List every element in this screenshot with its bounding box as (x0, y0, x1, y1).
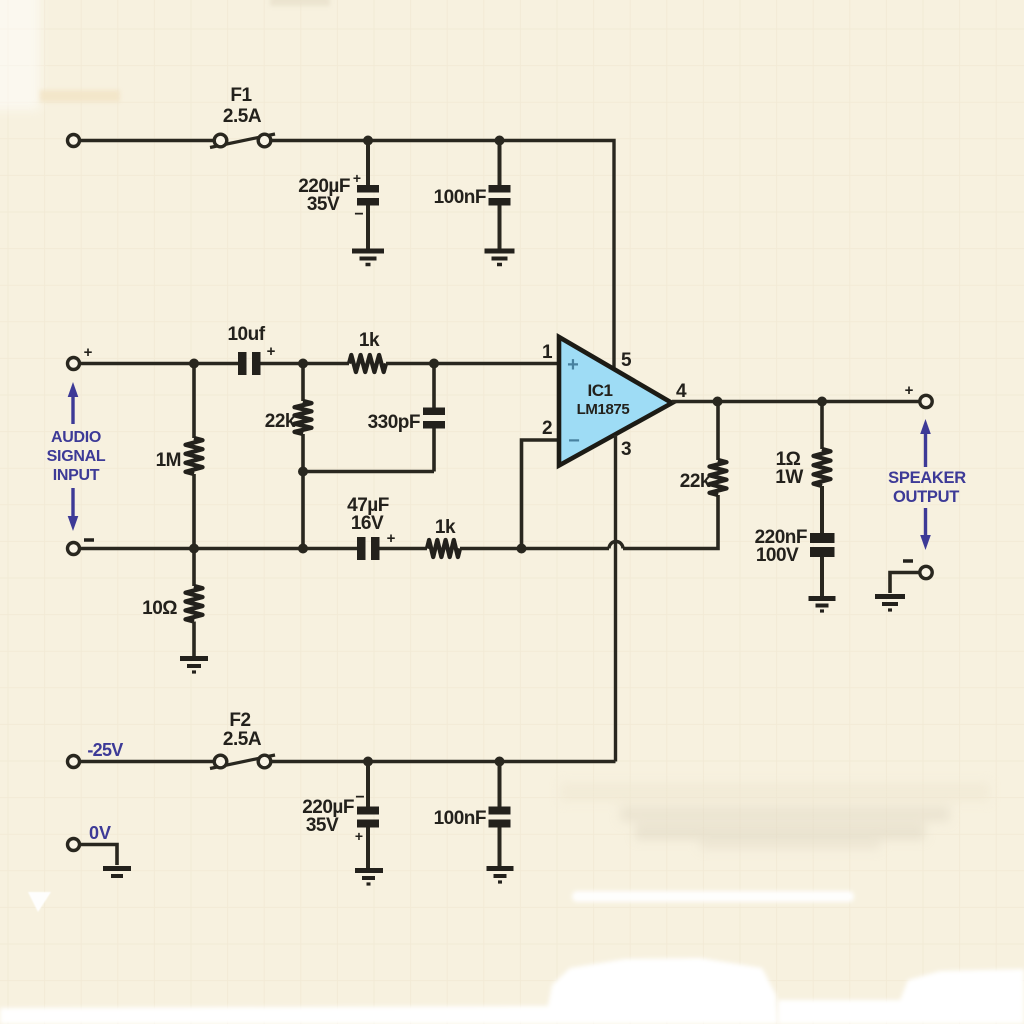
terminal -25V (68, 756, 80, 768)
ground (C7) (355, 871, 383, 885)
svg-text:SIGNAL: SIGNAL (47, 448, 106, 465)
svg-text:4: 4 (676, 381, 687, 402)
node 1M bottom (189, 544, 199, 554)
fuse F2 (210, 755, 275, 769)
resistor R6 1ohm 1W (775, 402, 830, 534)
wire hop to 22k fb corner, up through 22k (623, 495, 718, 549)
svg-text:1W: 1W (775, 467, 803, 488)
wire output rail (672, 400, 920, 403)
svg-text:−: − (568, 430, 580, 452)
svg-text:2.5A: 2.5A (223, 106, 262, 127)
terminal speaker - (920, 566, 932, 578)
svg-text:0V: 0V (89, 823, 111, 843)
wire 1k to pin1 (386, 362, 559, 365)
svg-text:10Ω: 10Ω (142, 598, 177, 619)
ground (speaker) (875, 597, 905, 611)
wire top rail right of fuse to corner, down to pin 5 (271, 141, 614, 368)
ground (C8) (487, 869, 514, 883)
svg-text:35V: 35V (307, 194, 340, 215)
node junction top rail / 100nF (495, 136, 505, 146)
svg-text:-25V: -25V (87, 740, 123, 760)
wire input+ line (80, 362, 239, 365)
resistor R1 1M (156, 364, 203, 549)
svg-text:OUTPUT: OUTPUT (893, 488, 959, 506)
svg-text:+: + (567, 354, 579, 376)
wire speaker - to ground (890, 573, 920, 594)
arrow up (speaker) (920, 419, 931, 467)
svg-text:22k: 22k (265, 411, 296, 432)
ground (10 ohm) (180, 659, 208, 673)
svg-text:INPUT: INPUT (53, 467, 100, 484)
arrow up (input) (68, 382, 79, 424)
ground (C1 top) (352, 251, 384, 265)
capacitor C7 220uF 35V (bottom) (302, 762, 379, 869)
svg-text:−: − (355, 789, 364, 806)
node junction top rail / 220uF (363, 136, 373, 146)
capacitor C1 220uF 35V (top) (298, 141, 379, 250)
capacitor C4 330pF (368, 364, 445, 472)
svg-text:2: 2 (542, 418, 552, 439)
terminal speaker + (920, 395, 932, 407)
wire 1k to pin2 node (460, 547, 609, 550)
svg-text:3: 3 (621, 439, 631, 460)
svg-text:SPEAKER: SPEAKER (888, 469, 966, 487)
svg-text:F1: F1 (230, 85, 252, 106)
resistor R3 22k (input shunt) (265, 364, 312, 472)
svg-text:10uf: 10uf (227, 324, 265, 345)
resistor R2 1k (input) (349, 355, 386, 372)
svg-text:+: + (387, 530, 396, 547)
svg-text:22k: 22k (680, 471, 711, 492)
svg-text:35V: 35V (306, 815, 339, 836)
resistor R5 22k (feedback) (680, 402, 727, 496)
wire pin2 vertical + horizontal into pin 2 (522, 440, 560, 549)
node 22k/330pF junction (298, 467, 308, 477)
wire 10uf to 1k (261, 362, 350, 365)
node feedback / pin2 (517, 544, 527, 554)
svg-text:F2: F2 (229, 710, 250, 731)
svg-text:330pF: 330pF (368, 412, 420, 433)
svg-text:100nF: 100nF (434, 187, 486, 208)
arrow down (input) (68, 488, 79, 531)
svg-text:+: + (905, 382, 914, 399)
wire 0V to ground (80, 845, 118, 866)
svg-text:+: + (353, 170, 361, 186)
capacitor C2 100nF (top) (434, 141, 511, 250)
wire top rail left of fuse (80, 139, 215, 142)
svg-text:−: − (354, 206, 363, 223)
terminal +25V (68, 135, 80, 147)
op-amp IC1 LM1875 (559, 337, 672, 466)
capacitor C5 47uF 16V (347, 495, 395, 560)
node 330pF top (429, 359, 439, 369)
svg-text:1M: 1M (156, 450, 181, 471)
terminal 0V (68, 839, 80, 851)
ground (C2 top) (485, 251, 515, 265)
wire 330pF bottom to 22k bottom (303, 472, 434, 549)
node 22k bottom vertical (298, 544, 308, 554)
capacitor C3 10uf (coupling) (227, 324, 275, 375)
ghost bleed-through band bottom right (560, 782, 990, 850)
svg-text:+: + (355, 828, 363, 844)
svg-text:100nF: 100nF (434, 808, 486, 829)
wire bottom rail left of fuse (80, 760, 215, 763)
wire pin3 down to negative rail (614, 435, 617, 762)
resistor R4 1k (feedback lower) (427, 540, 460, 557)
wire return line (80, 547, 358, 550)
fuse F1 (210, 134, 275, 148)
ground (0V) (103, 869, 131, 877)
capacitor C6 220nF 100V (755, 527, 835, 596)
svg-text:2.5A: 2.5A (223, 729, 262, 750)
resistor R7 10 ohm (142, 549, 202, 657)
node bottom rail / 220uF (363, 757, 373, 767)
svg-text:1k: 1k (359, 330, 380, 351)
svg-text:IC1: IC1 (588, 381, 613, 400)
terminal input - (68, 543, 80, 555)
svg-text:1: 1 (542, 342, 553, 363)
svg-text:1k: 1k (435, 517, 456, 538)
ground (zobel) (809, 599, 836, 612)
svg-text:+: + (267, 343, 276, 360)
svg-text:+: + (84, 344, 93, 361)
capacitor C8 100nF (bottom) (434, 762, 511, 867)
svg-text:16V: 16V (351, 513, 384, 534)
wire hop over pin3 line (609, 542, 623, 549)
svg-text:100V: 100V (756, 545, 799, 566)
arrow down (speaker) (920, 508, 931, 550)
wire bottom rail right of fuse, corner up to pin 3 (271, 760, 616, 763)
node 22k top (298, 359, 308, 369)
svg-text:LM1875: LM1875 (577, 401, 630, 418)
node bottom rail / 100nF (495, 757, 505, 767)
node input+/1M (189, 359, 199, 369)
svg-text:AUDIO: AUDIO (51, 429, 101, 446)
svg-text:5: 5 (621, 350, 632, 371)
terminal input + (68, 358, 80, 370)
wire 47uF to 1k fb (380, 547, 428, 550)
node 22k fb top (713, 397, 723, 407)
node zobel top (817, 397, 827, 407)
